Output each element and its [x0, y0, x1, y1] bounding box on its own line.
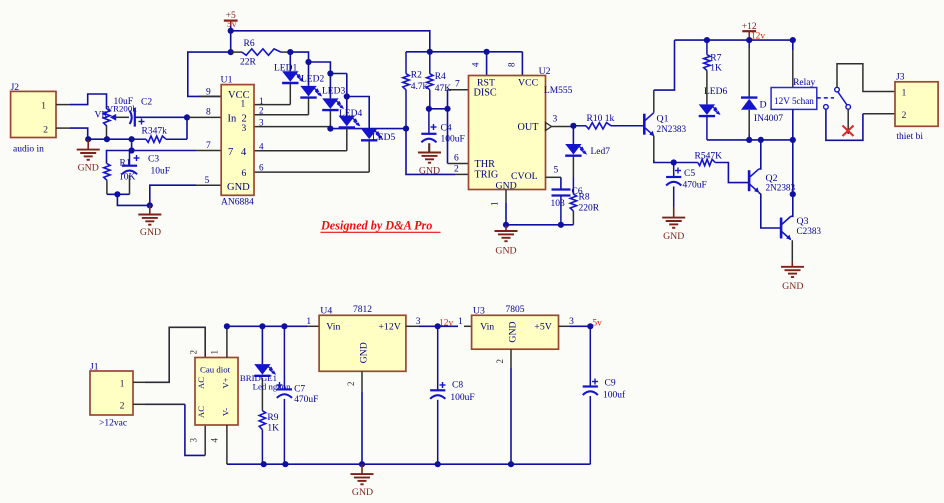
svg-text:7: 7 [228, 147, 233, 158]
transistor Q2 2N2383 [748, 170, 751, 191]
svg-text:VCC: VCC [518, 77, 538, 88]
pin J2.2 stub [56, 127, 70, 129]
svg-text:C8: C8 [452, 381, 463, 391]
wire Q2 emitter to Q3 base [759, 193, 781, 229]
node C8 bottom [435, 461, 441, 467]
wire R2 bottom to TRIG [406, 129, 455, 175]
svg-text:R7: R7 [710, 53, 721, 63]
node relay riser top junction [790, 37, 796, 43]
wire U1 pin4 line [254, 150, 347, 152]
svg-text:Cau diot: Cau diot [200, 365, 231, 375]
svg-text:+5V: +5V [534, 322, 552, 333]
svg-text:Vin: Vin [480, 322, 494, 333]
node OUT junction [570, 123, 576, 129]
svg-text:9: 9 [206, 88, 211, 98]
pin U3.1 stub [464, 325, 472, 327]
IC U4 7812 body [319, 315, 406, 371]
svg-text:7: 7 [455, 80, 460, 90]
svg-text:1: 1 [902, 88, 907, 99]
pin U1.8 stub [187, 116, 221, 118]
svg-text:C2383: C2383 [797, 226, 822, 236]
svg-text:1: 1 [120, 379, 125, 390]
svg-text:3: 3 [189, 438, 199, 443]
node bridge V+ junction [224, 323, 230, 329]
svg-text:2: 2 [454, 165, 459, 175]
svg-text:4: 4 [241, 147, 247, 158]
svg-text:C7: C7 [294, 385, 305, 395]
wire J2.2 to gnd rail [70, 128, 88, 139]
capacitor C9 100uf [589, 326, 591, 386]
node C7 top [281, 323, 287, 329]
capacitor C3 10uF [129, 151, 131, 166]
ground symbol (C5) [673, 207, 675, 218]
svg-text:C4: C4 [441, 124, 452, 134]
wire switch common to J3 pin1 [837, 64, 895, 92]
svg-text:2: 2 [43, 125, 48, 136]
wire VR bottom to gnd rail [106, 126, 108, 139]
IC U3 7805 body [472, 315, 559, 349]
svg-text:10K: 10K [119, 172, 136, 182]
svg-text:thiet bi: thiet bi [896, 132, 923, 142]
svg-text:47K: 47K [435, 84, 452, 94]
LED LED5 [361, 129, 377, 140]
svg-text:OUT: OUT [518, 122, 540, 133]
resistor R9 1K [259, 411, 265, 430]
pin U1.5 stub [196, 184, 221, 186]
node R6 left junction [228, 49, 234, 55]
relay switch armature [835, 87, 840, 92]
svg-text:6: 6 [454, 154, 459, 164]
svg-text:100uf: 100uf [603, 390, 626, 401]
svg-text:2: 2 [346, 382, 356, 387]
wire loop to gnd node [117, 194, 149, 205]
svg-text:4: 4 [210, 438, 220, 443]
plus sign C3 [134, 157, 140, 159]
pin U2.1 GND stub [505, 190, 507, 204]
svg-text:470uF: 470uF [683, 181, 707, 191]
node LED3 anode tap [327, 70, 333, 76]
svg-text:GND: GND [782, 281, 803, 292]
svg-text:4.7k: 4.7k [411, 82, 428, 92]
resistor R3 47k [132, 138, 146, 140]
pin U2.5 CVOL stub [546, 176, 561, 178]
IC U2 LM555 body [469, 76, 546, 190]
wire R4 bottom link [429, 108, 448, 110]
svg-text:220R: 220R [579, 204, 600, 214]
wire Q3 collector riser [791, 140, 793, 216]
svg-text:+12: +12 [742, 22, 757, 32]
svg-text:J1: J1 [90, 362, 99, 372]
wire Q2 collector riser [759, 140, 761, 169]
pin U2.6 stub [448, 163, 469, 165]
wire U1 pin3 line [254, 126, 330, 128]
wire switch NO contact to J3 pin2 [826, 109, 863, 140]
svg-text:2: 2 [495, 359, 505, 364]
svg-text:DISC: DISC [474, 87, 497, 98]
svg-text:2N2383: 2N2383 [766, 183, 796, 193]
wire +5 top rail [231, 31, 430, 52]
svg-text:AC: AC [196, 377, 206, 389]
node LED4 branch [344, 93, 350, 99]
LED BRIGHT (Led nguon) [261, 326, 263, 364]
pin J1.1 stub [133, 381, 145, 383]
relay dashed link [817, 97, 834, 99]
wire Q3 emitter down [791, 240, 793, 262]
power +12 symbol [742, 30, 756, 32]
svg-text:TRIG: TRIG [475, 170, 499, 181]
pin bridge V- stub [226, 425, 228, 464]
transistor Q1 2N2383 [643, 114, 646, 135]
resistor R8 220R [572, 177, 574, 194]
wire bottom gnd rail [227, 463, 590, 465]
svg-text:GND: GND [352, 487, 373, 498]
svg-text:R6: R6 [244, 39, 255, 49]
node LED2 anode tap [305, 59, 311, 65]
node VR bottom junction [104, 136, 110, 142]
node BRIGHT led top [259, 323, 265, 329]
node LED1 anode tap [287, 49, 293, 55]
wire LED staircase [290, 52, 347, 73]
wire VCC riser [521, 52, 523, 76]
svg-text:10uF: 10uF [114, 97, 134, 107]
svg-text:100uF: 100uF [450, 393, 474, 403]
capacitor C7 470uF [283, 326, 285, 389]
node C6 bottom junction [558, 222, 564, 228]
wire 555 vcc rail [406, 51, 430, 53]
LED LED4 [346, 97, 348, 116]
svg-text:R9: R9 [267, 413, 278, 423]
wire Q1 emitter down [653, 136, 655, 160]
wire U3 out to C9 [570, 325, 590, 327]
wire R1/C3 bottom loop [107, 193, 130, 195]
wire staircase step4 [346, 74, 348, 97]
svg-text:GND: GND [359, 342, 370, 363]
relay box 12V 5chan [771, 88, 817, 110]
resistor R5 47K [674, 162, 698, 164]
node bottom loop tap [114, 191, 120, 197]
IC U1 AN6884 body [221, 85, 254, 196]
LED LED3 [329, 74, 331, 99]
ground symbol (audio in) [87, 139, 89, 149]
svg-text:2N2383: 2N2383 [657, 124, 687, 134]
svg-text:103: 103 [551, 199, 566, 209]
wire switch NC contact stub [847, 109, 849, 134]
svg-text:LM555: LM555 [544, 86, 573, 96]
node +5 rail left junction [228, 28, 234, 34]
svg-text:R547K: R547K [695, 152, 723, 162]
svg-text:Relay: Relay [793, 78, 815, 88]
node 12v junction [435, 323, 441, 329]
svg-text:Designed by D&A Pro: Designed by D&A Pro [320, 218, 432, 232]
svg-text:THR: THR [475, 159, 496, 170]
node Q2 collector junction [758, 137, 764, 143]
wire gnd rail segment [88, 138, 131, 140]
node +12/D junction [746, 37, 752, 43]
capacitor C6 103 [560, 177, 562, 189]
svg-text:J2: J2 [11, 83, 20, 93]
svg-text:470uF: 470uF [294, 395, 318, 405]
wire U4 gnd down [361, 392, 363, 464]
svg-text:R2: R2 [411, 71, 422, 81]
node R7 top junction [704, 37, 710, 43]
svg-text:1: 1 [210, 350, 220, 355]
node RST riser junction [484, 49, 490, 55]
svg-text:100uF: 100uF [441, 135, 465, 145]
pin U3.3 stub [559, 325, 571, 327]
svg-text:3: 3 [569, 317, 574, 327]
svg-text:Vin: Vin [326, 322, 340, 333]
plus sign C4 [431, 126, 437, 128]
node 5v junction [587, 323, 593, 329]
wire 12v to U3 [438, 325, 458, 327]
svg-text:C3: C3 [148, 155, 159, 165]
LED LED6 [699, 104, 715, 115]
node U3 gnd bottom [508, 461, 514, 467]
resistor R6 [231, 51, 242, 53]
wire 555 gnd rail [506, 224, 573, 226]
node J2 gnd junction [85, 136, 91, 142]
ground symbol (U1 area) [149, 205, 151, 214]
svg-text:LED1: LED1 [274, 64, 297, 74]
pin U3.2 stub [510, 349, 512, 368]
svg-text:2: 2 [902, 110, 907, 121]
svg-text:1: 1 [259, 96, 264, 106]
pin U4.3 stub [406, 325, 419, 327]
plus sign C2 [139, 121, 145, 123]
svg-text:GND: GND [78, 163, 99, 174]
pin U2.2 stub [455, 173, 469, 175]
resistor R2 4.7k [405, 52, 407, 74]
svg-text:U1: U1 [221, 74, 233, 85]
relay coil riser bottom [792, 109, 794, 139]
svg-text:+12V: +12V [378, 322, 400, 333]
wire U4 out to C8 [419, 325, 438, 327]
LED LED1 [289, 52, 291, 71]
no-connect X [843, 126, 854, 137]
node LED3 cathode junction [327, 126, 333, 132]
pin U2.3 OUT arrow [546, 123, 552, 131]
svg-text:2: 2 [259, 106, 264, 116]
svg-text:1K: 1K [710, 64, 722, 74]
node +5 riser junction at 555 rail [427, 49, 433, 55]
resistor R1 10K [104, 164, 110, 181]
svg-text:U2: U2 [539, 66, 551, 77]
wire tap down to pin7 line [131, 139, 133, 150]
svg-text:>12vac: >12vac [99, 419, 127, 429]
pin bridge V+ stub [226, 326, 228, 357]
power +5 symbol [224, 20, 238, 22]
node Q1 emitter junction [671, 159, 677, 165]
svg-text:1: 1 [306, 317, 311, 327]
svg-text:GND: GND [419, 166, 440, 177]
svg-text:AC: AC [196, 406, 206, 418]
svg-text:4: 4 [259, 142, 264, 152]
wire pin3 net to R2 bottom [330, 128, 406, 130]
capacitor C5 470uF [673, 163, 675, 178]
svg-text:1: 1 [458, 317, 463, 327]
LED LED2 [308, 62, 310, 86]
capacitor C4 100uF [428, 109, 430, 134]
wire staircase to LED5 [347, 97, 369, 129]
wire RST riser [486, 52, 488, 76]
wire +12vin rail [227, 325, 307, 327]
svg-text:3: 3 [553, 115, 558, 125]
wire C2 to pin8 junction [135, 116, 187, 118]
LED Led7 [572, 126, 574, 144]
svg-text:5: 5 [554, 166, 559, 176]
node relay riser bottom junction [790, 137, 796, 143]
svg-text:LED4: LED4 [339, 109, 362, 119]
svg-text:J3: J3 [896, 72, 905, 82]
svg-text:U4: U4 [320, 305, 332, 316]
capacitor C8 100uF [437, 326, 439, 390]
svg-text:In: In [228, 114, 237, 125]
svg-text:audio in: audio in [13, 145, 44, 155]
resistor R7 1K [706, 40, 708, 55]
svg-text:D: D [760, 100, 767, 111]
svg-text:GND: GND [227, 182, 250, 193]
ground symbol (Q3) [781, 266, 804, 268]
svg-text:AN6884: AN6884 [221, 198, 254, 208]
potentiometer VR 200k [104, 109, 110, 126]
pin U2.7 stub [448, 89, 469, 91]
svg-text:5v: 5v [592, 319, 602, 329]
svg-text:C2: C2 [141, 98, 152, 108]
wire DISC riser [447, 90, 449, 164]
svg-text:3: 3 [242, 124, 247, 134]
svg-text:R8: R8 [579, 193, 590, 203]
node U4 gnd bottom [359, 461, 365, 467]
svg-text:C9: C9 [605, 379, 616, 389]
resistor R4 47K [429, 52, 431, 74]
svg-text:LED5: LED5 [372, 133, 395, 143]
pin J2.1 stub [56, 104, 70, 106]
connector J3 [895, 82, 938, 127]
pin U4.2 stub [361, 371, 363, 392]
svg-text:12V 5chan: 12V 5chan [774, 96, 814, 106]
wire 555 gnd down [505, 203, 507, 225]
node R4/C4 junction [426, 106, 432, 112]
svg-text:V-: V- [221, 408, 231, 416]
svg-text:6: 6 [242, 169, 247, 179]
svg-text:GND: GND [663, 231, 684, 242]
transistor Q3 C2383 [780, 218, 783, 239]
wire +5 drop to R6 rail [230, 31, 232, 52]
node U1 pin8 junction [184, 114, 190, 120]
pin U4.1 stub [307, 325, 319, 327]
plus sign C8 [440, 384, 446, 386]
node D bottom junction [746, 137, 752, 143]
svg-text:6: 6 [259, 163, 264, 173]
svg-text:U3: U3 [473, 305, 485, 316]
ground symbol (555) [505, 225, 507, 231]
wire J2.1 to VR top [70, 94, 107, 109]
wire Q1 collector riser [653, 90, 655, 112]
svg-text:3: 3 [259, 118, 264, 128]
pin J1.2 stub [133, 403, 145, 405]
node Q3 collector junction [790, 191, 796, 197]
pin U1.7 stub [196, 150, 221, 152]
svg-text:R10 1k: R10 1k [587, 114, 615, 124]
resistor R10 1k [573, 125, 586, 127]
svg-text:4: 4 [471, 62, 481, 67]
svg-text:2: 2 [120, 401, 125, 412]
bridge rectifier body [195, 358, 238, 426]
svg-text:Led7: Led7 [591, 147, 611, 157]
svg-text:8: 8 [206, 108, 211, 118]
svg-text:R4: R4 [435, 72, 446, 82]
svg-text:LED2: LED2 [301, 75, 324, 85]
svg-text:2: 2 [242, 114, 247, 125]
wire relay bottom rail [707, 139, 793, 141]
node R9 bottom [261, 461, 267, 467]
node 555 gnd rail [503, 222, 509, 228]
svg-text:GND: GND [140, 227, 161, 238]
node R2 bottom junction (TRIG net) [403, 126, 409, 132]
svg-text:GND: GND [495, 246, 516, 257]
svg-text:R347k: R347k [142, 127, 168, 137]
wire U1 pin1 line [254, 104, 290, 106]
svg-text:7812: 7812 [353, 305, 372, 315]
ground symbol (bottom rail) [361, 464, 363, 474]
wire U3 gnd down [510, 368, 512, 464]
svg-text:LED3: LED3 [322, 87, 345, 97]
node C7 bottom [282, 461, 288, 467]
svg-text:12v: 12v [751, 32, 766, 42]
svg-text:1K: 1K [267, 424, 279, 434]
wire rail to U1 pin9 riser [188, 52, 231, 96]
svg-text:2: 2 [189, 350, 199, 355]
wire C5 bottom [673, 187, 675, 208]
svg-text:8: 8 [507, 62, 517, 67]
connector J2 [11, 91, 56, 137]
relay coil riser top [792, 40, 794, 50]
svg-text:1: 1 [241, 100, 246, 110]
plus sign C7 [277, 384, 283, 386]
node gnd node under C3 [147, 202, 153, 208]
node C2/C3 tap [129, 136, 135, 142]
wire U1 pin6 line [254, 171, 369, 173]
svg-text:10uF: 10uF [151, 167, 171, 177]
ground symbol (C4) [429, 143, 431, 152]
plus sign C9 [592, 381, 598, 383]
wire U1 pin7 line [107, 151, 197, 164]
svg-text:LED6: LED6 [704, 87, 727, 97]
node pin7 line tap [129, 147, 135, 153]
connector J1 [90, 371, 133, 415]
svg-text:1: 1 [490, 202, 500, 207]
wire pin8 junction down to R3 [186, 117, 188, 139]
svg-text:7: 7 [206, 141, 211, 151]
svg-text:C5: C5 [684, 169, 695, 179]
diode D IN4007 [748, 40, 750, 48]
svg-text:VCC: VCC [228, 90, 250, 101]
svg-text:IN4007: IN4007 [754, 114, 783, 124]
svg-text:7805: 7805 [506, 305, 525, 315]
wire J1.2 to bridge AC2 [145, 403, 185, 405]
capacitor C2 [116, 116, 130, 118]
wire +12 rail [675, 39, 793, 41]
pin U2.3 stub [552, 126, 574, 128]
node DISC/THR riser junction [444, 106, 450, 112]
svg-text:GND: GND [508, 321, 519, 342]
wire J1.1 to bridge AC1 [145, 327, 205, 382]
pin U1.9 stub [199, 95, 221, 97]
svg-text:V+: V+ [221, 377, 231, 388]
svg-text:22R: 22R [240, 58, 257, 68]
wire U1 pin5 to gnd node [150, 185, 196, 205]
wire +5 stem [230, 26, 232, 31]
